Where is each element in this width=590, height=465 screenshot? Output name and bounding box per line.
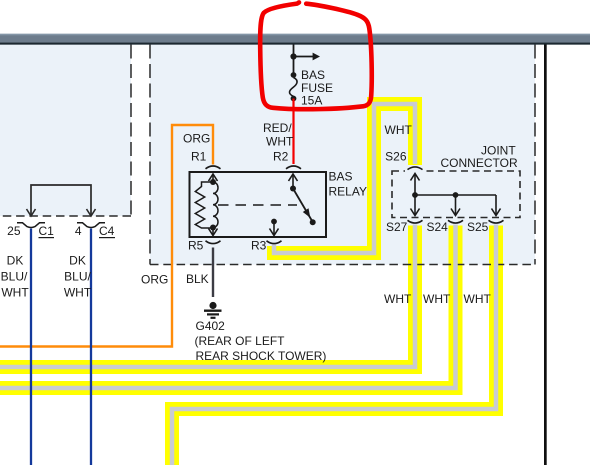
svg-text:R5: R5: [188, 239, 204, 253]
svg-text:WHT: WHT: [385, 123, 413, 137]
wire BLK relay R5 to ground: [212, 248, 214, 298]
svg-text:4: 4: [75, 224, 82, 238]
label BAS FUSE 15A: [301, 68, 333, 108]
label G402: [195, 319, 327, 363]
svg-text:G402: G402: [196, 319, 226, 333]
power rail bar top: [0, 34, 590, 45]
fuse element curve: [289, 78, 297, 97]
connector arc at S25: [489, 220, 504, 223]
svg-text:R3: R3: [251, 239, 267, 253]
connector arc at S26: [408, 167, 423, 170]
svg-text:BAS: BAS: [301, 68, 325, 82]
connector arc at R5: [206, 241, 221, 244]
red marker circle around fuse: [260, 2, 372, 109]
ground G402: [204, 302, 222, 318]
junction node S24: [453, 192, 459, 198]
wire RED/WHT fuse to relay R2: [292, 99, 294, 165]
connector arc at R3: [267, 241, 282, 244]
svg-text:WHT: WHT: [64, 286, 92, 300]
fuse BAS FUSE 15A top node: [291, 72, 297, 78]
wire DK BLU/WHT pin 25: [30, 229, 32, 465]
svg-text:RELAY: RELAY: [329, 185, 367, 199]
fuse bottom node: [291, 96, 297, 102]
joint connector pin S26 arrow up: [411, 174, 420, 196]
yellow highlight: wire S27 down-left: [0, 226, 415, 368]
svg-text:(REAR OF LEFT: (REAR OF LEFT: [195, 334, 286, 348]
wire WHT core S27: [0, 225, 415, 368]
relay R3 contact node: [271, 219, 277, 225]
label DK BLU/WHT left: [1, 254, 30, 300]
shaded module area left fill: [0, 44, 131, 216]
svg-text:BLK: BLK: [186, 272, 209, 286]
connector arc at R1: [206, 166, 221, 169]
relay coil resistor zigzag: [195, 182, 213, 228]
wire WHT core R3 to S26: [274, 104, 415, 253]
svg-text:25: 25: [7, 224, 21, 238]
yellow highlight: wire S24 down-left: [0, 226, 456, 389]
joint connector bus line: [415, 194, 496, 196]
relay switch contact node: [310, 219, 316, 225]
svg-text:DK: DK: [69, 254, 86, 268]
label DK BLU/WHT right: [64, 254, 92, 300]
jumper bracket pins 25 to 4: [27, 185, 96, 216]
svg-text:REAR SHOCK TOWER): REAR SHOCK TOWER): [196, 349, 327, 363]
relay actuation dashed line: [218, 204, 297, 206]
svg-text:ORG: ORG: [141, 273, 168, 287]
label RED/WHT: [263, 121, 294, 149]
wire WHT core S24: [0, 225, 456, 389]
svg-text:ORG: ORG: [183, 132, 210, 146]
shaded module area main fill: [150, 44, 535, 265]
label JOINT CONNECTOR: [441, 144, 518, 171]
svg-text:DK: DK: [7, 254, 24, 268]
svg-text:CONNECTOR: CONNECTOR: [441, 156, 518, 170]
svg-text:WHT: WHT: [464, 292, 492, 306]
pin S27 arrow down: [411, 195, 420, 216]
label 4 C4: [75, 224, 115, 238]
yellow highlight: wire S25 down-left-down: [172, 226, 496, 465]
relay BAS RELAY box: [190, 172, 327, 237]
yellow highlight: wire R3 to S26: [267, 104, 415, 253]
svg-text:BAS: BAS: [329, 170, 353, 184]
svg-text:15A: 15A: [301, 94, 322, 108]
pin S24 arrow down: [451, 195, 460, 216]
svg-text:S24: S24: [427, 220, 449, 234]
label BAS RELAY: [329, 170, 367, 199]
joint connector dashed box: [392, 171, 520, 218]
arrow tap to right: [294, 53, 321, 61]
relay coil winding arcs: [213, 182, 218, 228]
wire ORG from relay R1: [0, 125, 213, 347]
svg-text:WHT: WHT: [384, 292, 412, 306]
relay coil bottom node: [210, 225, 216, 231]
relay pin R2 arrow up: [289, 174, 298, 189]
svg-text:S26: S26: [385, 150, 407, 164]
wire WHT core S25: [172, 225, 496, 465]
relay coil top node: [210, 179, 216, 185]
svg-text:S25: S25: [467, 220, 489, 234]
svg-text:RED/: RED/: [263, 121, 292, 135]
svg-text:S27: S27: [386, 220, 408, 234]
svg-text:R1: R1: [191, 150, 207, 164]
relay switch blade arrowhead: [303, 208, 311, 217]
relay pin R3 arrow down: [270, 222, 279, 236]
relay switch common node: [290, 186, 296, 192]
junction node S27: [412, 192, 418, 198]
connector C4 pin 4 symbol: [77, 223, 105, 228]
svg-text:C4: C4: [99, 224, 115, 238]
wire DK BLU/WHT pin 4: [90, 229, 92, 465]
connector arc at S27: [408, 220, 423, 223]
connector arc at R2: [286, 166, 301, 169]
svg-text:BLU/: BLU/: [64, 270, 91, 284]
wire down to fuse: [293, 57, 295, 76]
svg-text:WHT: WHT: [1, 286, 29, 300]
svg-text:WHT: WHT: [423, 292, 451, 306]
connector arc at S24: [448, 220, 463, 223]
junction node at rail tap: [290, 53, 296, 59]
pin S25 arrow down: [492, 195, 501, 216]
heavy vertical line right side: [544, 45, 547, 465]
connector C1 pin 25 symbol: [17, 223, 45, 228]
relay pin R1 arrow up: [209, 174, 218, 182]
mask of dash under S26 entry: [405, 169, 425, 174]
module area left dashed border: [130, 45, 132, 217]
relay pin R5 arrow down: [209, 228, 218, 236]
module area main dashed border: [150, 45, 535, 265]
fuse feed wire from rail: [293, 45, 295, 57]
svg-text:R2: R2: [273, 150, 289, 164]
label 25 C1: [7, 224, 54, 238]
svg-text:C1: C1: [39, 224, 55, 238]
svg-text:BLU/: BLU/: [1, 270, 28, 284]
svg-text:WHT: WHT: [266, 135, 294, 149]
relay switch blade: [293, 189, 313, 223]
